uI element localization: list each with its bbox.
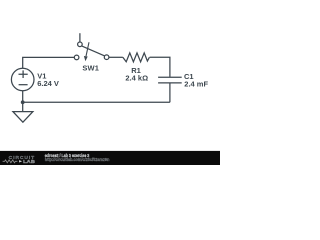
svg-text:6.24 V: 6.24 V bbox=[37, 79, 59, 88]
CircuitLab logo LAB mark bbox=[19, 160, 22, 162]
wire resistor to capacitor bbox=[150, 57, 170, 77]
resistor R1 bbox=[123, 53, 150, 62]
wire bottom rail bbox=[23, 101, 170, 103]
svg-text:2.4 mF: 2.4 mF bbox=[184, 80, 208, 89]
capacitor C1 bbox=[158, 77, 182, 102]
footer watermark bar bbox=[0, 150, 220, 165]
wire switch to resistor bbox=[109, 56, 123, 58]
CircuitLab logo resistor squiggle bbox=[3, 160, 18, 163]
svg-text:http://circuitlab.com/c/25cf52: http://circuitlab.com/c/25cf52amz9n bbox=[45, 157, 110, 162]
ground bbox=[13, 102, 33, 122]
switch SW1 bbox=[74, 33, 109, 61]
svg-text:SW1: SW1 bbox=[82, 64, 99, 73]
wire top-left from source to switch bbox=[23, 57, 74, 68]
svg-text:LAB: LAB bbox=[23, 159, 36, 164]
voltage source V1 bbox=[11, 68, 34, 102]
junction node bbox=[21, 100, 25, 104]
svg-text:2.4 kΩ: 2.4 kΩ bbox=[125, 74, 148, 83]
